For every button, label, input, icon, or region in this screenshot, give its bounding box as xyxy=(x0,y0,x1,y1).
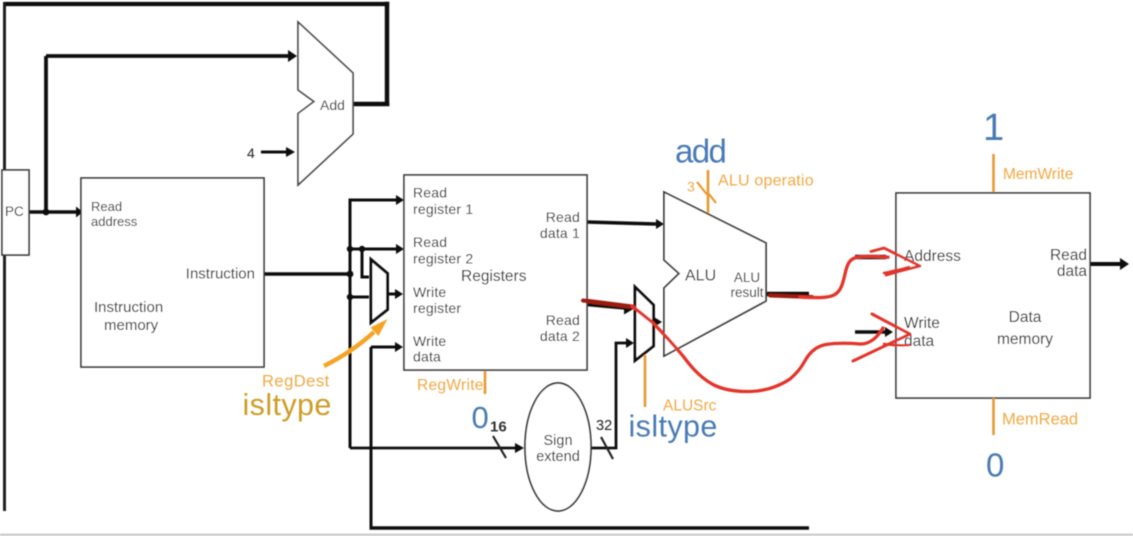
svg-text:Sign: Sign xyxy=(543,433,572,449)
svg-text:Instruction: Instruction xyxy=(186,266,255,283)
svg-text:MemRead: MemRead xyxy=(1002,411,1078,429)
svg-text:register 1: register 1 xyxy=(413,201,473,217)
svg-text:Data: Data xyxy=(1009,309,1042,326)
svg-text:data 2: data 2 xyxy=(540,328,580,344)
svg-text:ALU: ALU xyxy=(734,270,760,285)
svg-text:Add: Add xyxy=(320,97,345,113)
svg-text:isltype: isltype xyxy=(243,388,332,422)
svg-text:Read: Read xyxy=(413,234,447,250)
svg-text:PC: PC xyxy=(5,204,24,219)
svg-text:MemWrite: MemWrite xyxy=(1003,166,1073,183)
svg-text:4: 4 xyxy=(247,145,255,161)
svg-text:data: data xyxy=(413,349,441,365)
svg-text:isltype: isltype xyxy=(629,410,718,444)
svg-text:ALU: ALU xyxy=(685,268,716,285)
svg-text:0: 0 xyxy=(986,447,1004,484)
svg-text:result: result xyxy=(730,285,763,300)
svg-text:register 2: register 2 xyxy=(413,251,473,267)
svg-text:3: 3 xyxy=(687,179,695,195)
svg-text:Registers: Registers xyxy=(461,268,527,285)
svg-text:16: 16 xyxy=(490,419,507,436)
svg-text:data 1: data 1 xyxy=(540,225,580,241)
svg-text:0: 0 xyxy=(472,400,489,435)
svg-text:add: add xyxy=(675,133,726,170)
svg-text:1: 1 xyxy=(983,107,1004,149)
svg-text:Read: Read xyxy=(413,185,447,201)
svg-text:RegWrite: RegWrite xyxy=(417,377,484,394)
svg-text:address: address xyxy=(91,214,138,229)
svg-text:Write: Write xyxy=(904,315,940,332)
svg-text:data: data xyxy=(1057,263,1088,280)
svg-text:Instruction: Instruction xyxy=(94,299,163,316)
svg-text:Read: Read xyxy=(546,312,580,328)
svg-text:Read: Read xyxy=(91,199,122,214)
svg-text:Read: Read xyxy=(1050,247,1087,264)
svg-text:32: 32 xyxy=(596,418,612,434)
svg-text:Read: Read xyxy=(546,209,580,225)
svg-text:extend: extend xyxy=(536,449,580,465)
svg-text:memory: memory xyxy=(104,317,159,334)
svg-text:memory: memory xyxy=(997,331,1053,348)
svg-text:Write: Write xyxy=(413,284,446,300)
svg-text:register: register xyxy=(413,300,461,316)
svg-text:Write: Write xyxy=(413,333,446,349)
svg-text:ALU operatio: ALU operatio xyxy=(718,173,814,190)
